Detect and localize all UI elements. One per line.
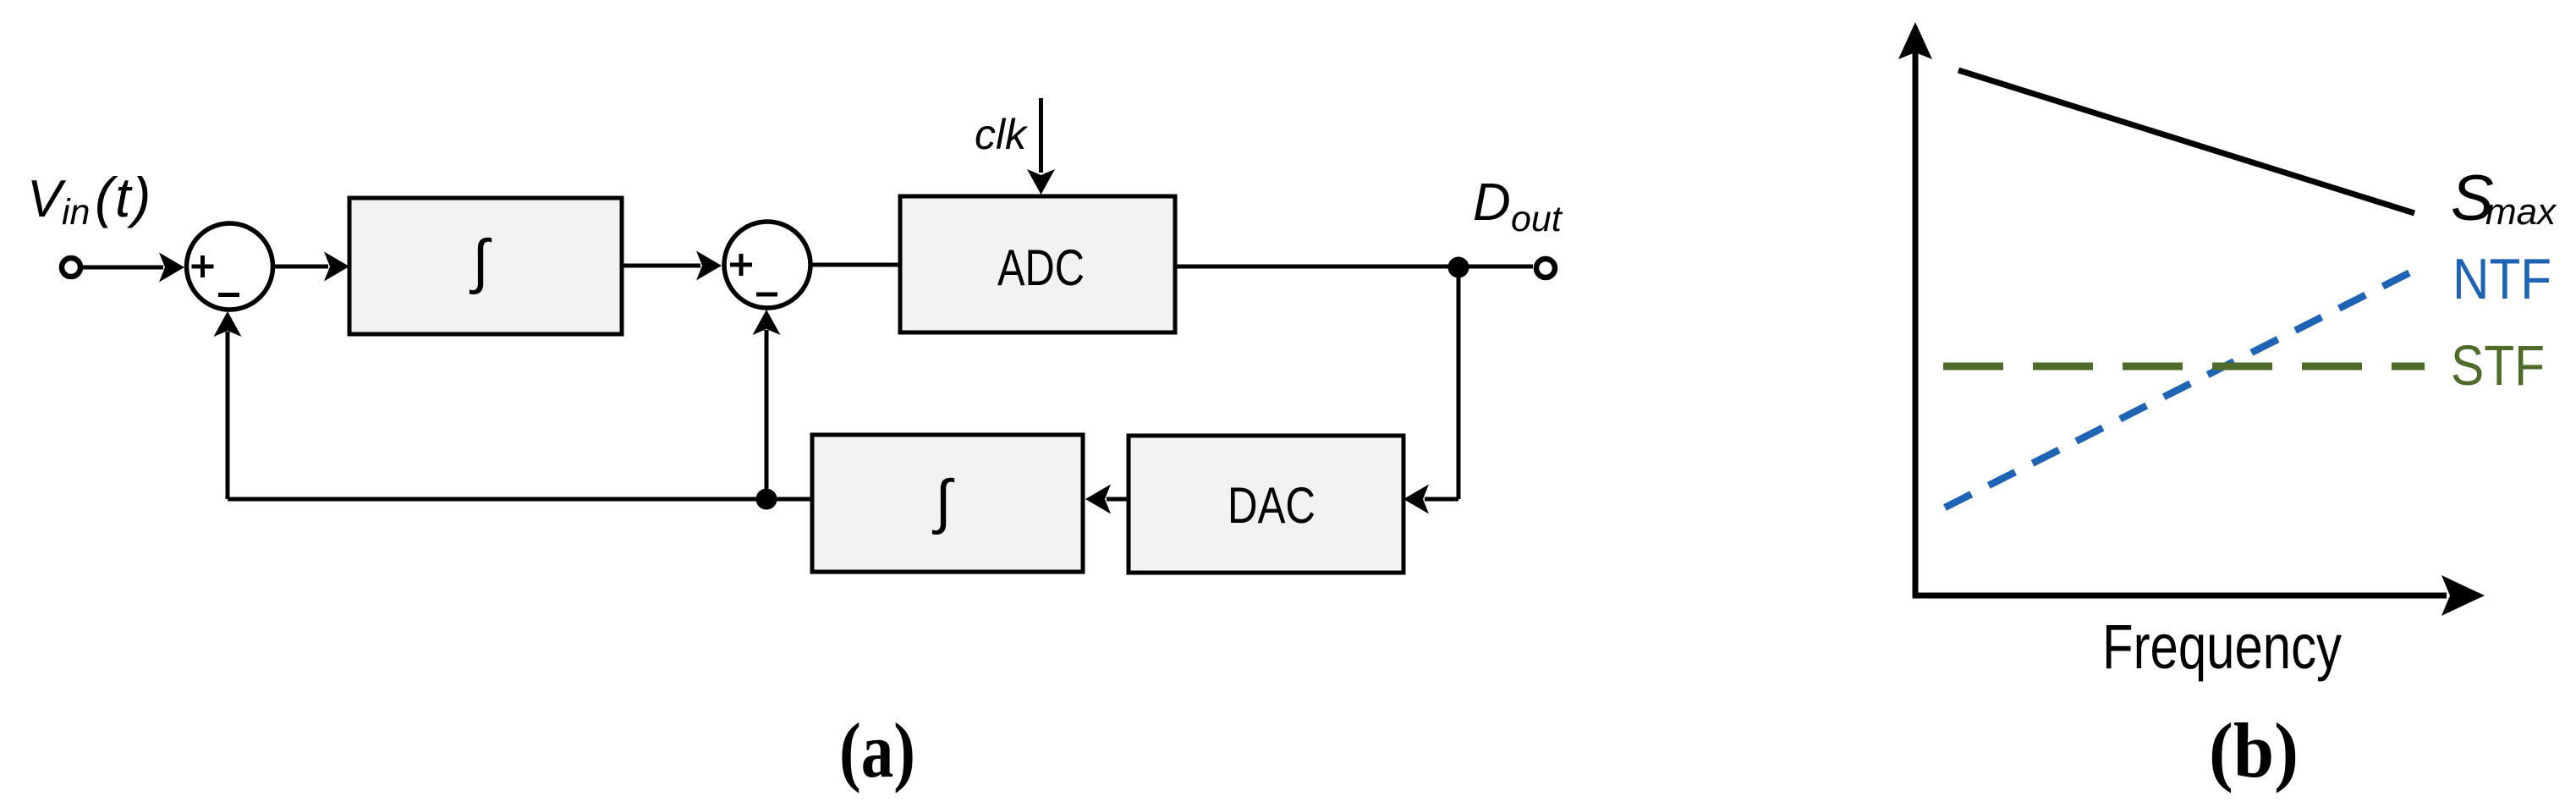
svg-text:∫: ∫ — [469, 228, 492, 295]
wire feedback from integrator 2 to left — [228, 497, 812, 502]
svg-text:Frequency: Frequency — [2102, 612, 2342, 682]
svg-text:(b): (b) — [2209, 707, 2299, 793]
summing junction S2 — [724, 222, 810, 308]
summing junction S1 — [187, 223, 273, 310]
x axis — [1913, 575, 2485, 616]
integrator block 1 — [349, 198, 622, 334]
STF curve (green dashed) — [1943, 363, 2425, 371]
svg-text:∫: ∫ — [931, 469, 954, 535]
wire feedback node up to summer S2 — [753, 310, 781, 499]
wire S2 to ADC — [810, 263, 900, 267]
wire feedback left leg up to summer S1 — [214, 311, 242, 499]
wire S1 to integrator 1 — [273, 252, 350, 282]
svg-text:DAC: DAC — [1228, 477, 1315, 534]
clk arrow into ADC — [1027, 98, 1055, 195]
wire DAC to integrator 2 — [1085, 485, 1129, 514]
wire output node down and left to DAC — [1403, 267, 1458, 514]
output terminal — [1536, 259, 1555, 277]
wire ADC to output terminal — [1175, 265, 1533, 269]
svg-text:clk: clk — [975, 111, 1029, 158]
svg-text:(a): (a) — [839, 707, 915, 793]
svg-text:STF: STF — [2451, 334, 2545, 398]
node junction feedback — [756, 489, 777, 510]
ADC block — [900, 196, 1175, 332]
wire input terminal to summer S1 — [83, 253, 184, 283]
y axis — [1898, 22, 1932, 598]
NTF curve (blue dashed) — [1945, 267, 2420, 508]
integrator block 2 — [812, 435, 1083, 572]
svg-text:ADC: ADC — [997, 239, 1085, 296]
Smax curve — [1958, 70, 2414, 213]
node junction at Dout — [1448, 257, 1469, 278]
label Vin(t) — [27, 166, 152, 233]
wire integrator 1 to summer S2 — [622, 251, 722, 281]
svg-text:NTF: NTF — [2452, 247, 2551, 311]
input terminal — [62, 258, 80, 277]
DAC block — [1129, 436, 1403, 573]
